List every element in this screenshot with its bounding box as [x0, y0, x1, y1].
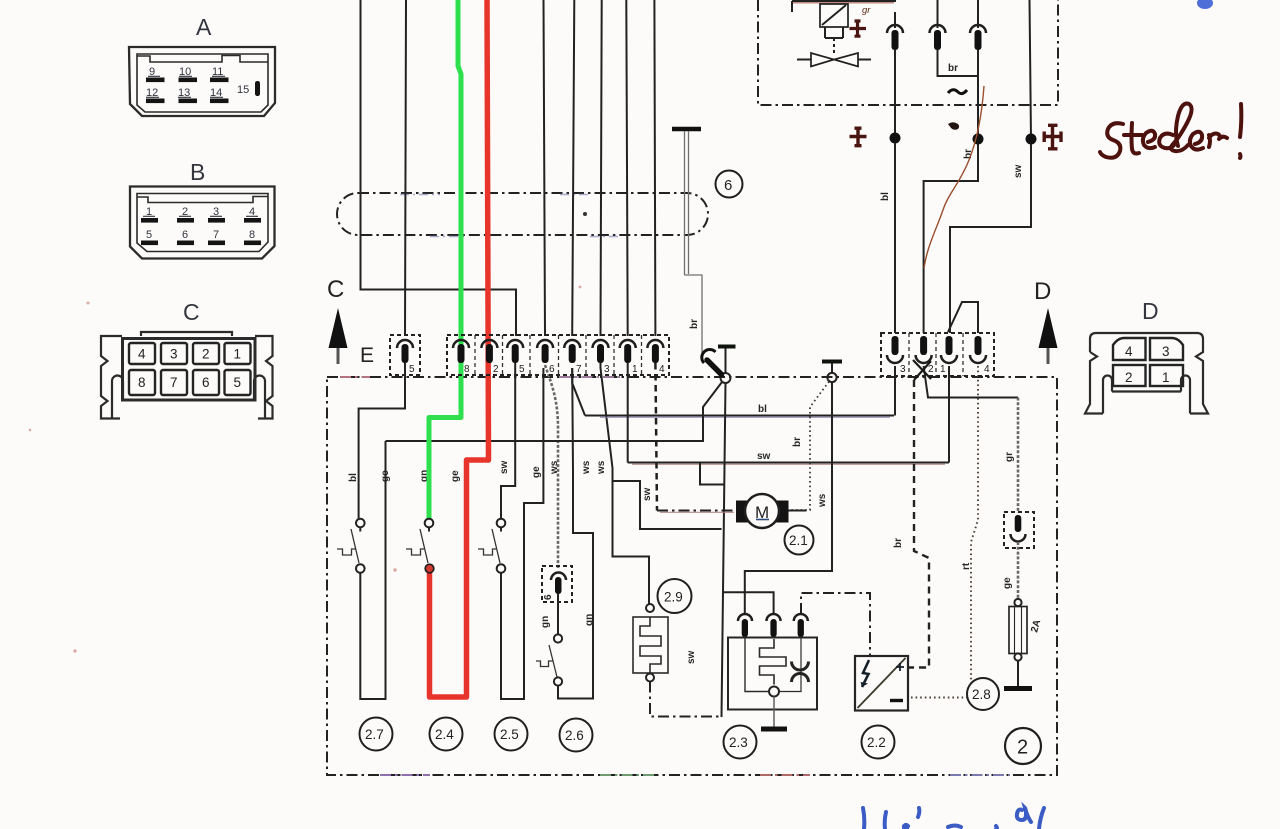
svg-text:C: C [327, 276, 344, 303]
D row pin box [881, 333, 994, 376]
svg-text:6: 6 [202, 375, 210, 390]
wire E6 to lamp 26 (ws grey) [545, 365, 558, 568]
E pins (terminals) [397, 340, 663, 363]
wire to fuse [1017, 542, 1020, 599]
unit circle 2 [1005, 728, 1041, 764]
sw rail tap to stem [700, 463, 724, 485]
ground 23 [773, 697, 775, 728]
X cross mark over pin 2 [913, 360, 931, 380]
wire 29 to sw drop [650, 682, 721, 717]
rt dotted wire D4 to 22 [909, 366, 979, 698]
motor 21 [736, 501, 789, 523]
stadium loom outline (dash-dot) [337, 193, 708, 235]
sw rail [632, 463, 945, 465]
resistor 29 [646, 604, 654, 612]
svg-text:6: 6 [549, 364, 555, 375]
E row pin box 5a [390, 335, 420, 375]
ground 28 [1017, 661, 1019, 686]
svg-text:sw: sw [642, 487, 653, 501]
svg-text:2.8: 2.8 [972, 687, 991, 702]
wire to pin 1 [626, 0, 627, 336]
svg-text:br: br [792, 437, 803, 447]
wire sw top right [1030, 0, 1032, 139]
wire E1 down (sw) [627, 363, 629, 463]
svg-text:3: 3 [900, 364, 906, 375]
connector B pins 1-8 [141, 218, 261, 245]
inverter box 22 [855, 656, 908, 711]
svg-text:E: E [360, 344, 374, 367]
svg-text:2.7: 2.7 [365, 727, 384, 742]
svg-text:6: 6 [182, 229, 188, 241]
svg-text:2.4: 2.4 [435, 727, 454, 742]
pin terminal U3 [970, 25, 986, 33]
node dot bl [890, 133, 901, 144]
component circle 26 [560, 719, 593, 752]
pin terminal U2 [930, 25, 946, 33]
wires into pins 2,3 from top [938, 0, 979, 28]
svg-text:1: 1 [1162, 370, 1170, 385]
antenna lead thin wire [685, 131, 703, 358]
svg-text:2.9: 2.9 [664, 590, 683, 605]
svg-text:ws: ws [817, 493, 828, 508]
wire switch 27 down and return (ge) [360, 441, 385, 699]
svg-text:4: 4 [659, 364, 665, 375]
svg-text:5: 5 [409, 364, 415, 375]
svg-text:2: 2 [928, 364, 934, 375]
wire sw down-step to D-row pin1 [950, 144, 1031, 333]
svg-text:2: 2 [1125, 370, 1133, 385]
svg-text:5: 5 [146, 229, 152, 241]
svg-text:br: br [893, 538, 904, 548]
switch 24 [420, 529, 428, 563]
ws wire T-terminal down to heater 23 [745, 382, 832, 615]
svg-text:4: 4 [984, 364, 990, 375]
svg-text:D: D [1034, 278, 1051, 305]
wire br down-step to D-row pin2 [924, 144, 978, 333]
svg-text:ge: ge [1002, 577, 1013, 589]
handwritten blue marks bottom [863, 808, 1044, 829]
lamp pin box 26 [542, 566, 572, 602]
wire pin1 down to node [894, 50, 896, 139]
br dotted wire T-terminal to motor [789, 382, 829, 511]
wire br U-loop pins 2-3 [938, 50, 979, 76]
connector B body [130, 187, 275, 259]
connector A body [129, 47, 275, 116]
E pin numbers [409, 364, 665, 375]
node 6 circle [716, 171, 743, 198]
wire pin3 down to node [977, 50, 979, 139]
svg-text:D: D [1142, 298, 1159, 324]
wire to pin 4 [654, 0, 655, 336]
svg-text:A: A [196, 14, 212, 40]
node dot sw [1026, 134, 1037, 145]
svg-text:1: 1 [940, 364, 946, 375]
svg-text:sw: sw [499, 460, 510, 474]
pin box 28 feed [1004, 512, 1034, 548]
svg-text:6: 6 [543, 594, 554, 600]
svg-text:2.2: 2.2 [867, 735, 886, 750]
switch 26 [554, 634, 562, 642]
component circle 29 [658, 579, 692, 613]
handwritten Stecker! [1100, 104, 1241, 159]
svg-text:8: 8 [249, 229, 255, 241]
wire 26 return (gn) [558, 368, 593, 699]
plus mark left of dots [850, 127, 867, 147]
svg-text:ws: ws [549, 460, 560, 475]
node dot br [973, 134, 984, 145]
border colour tints [340, 377, 1010, 775]
wire to pin 5a [405, 0, 406, 336]
svg-text:gn: gn [540, 616, 551, 628]
wire E7 to bl rail diagonal [572, 368, 585, 416]
thin brown pencil wire [924, 86, 984, 268]
top-right dash-dot box [758, 0, 1058, 105]
svg-text:1: 1 [234, 347, 242, 362]
svg-text:15: 15 [237, 84, 249, 96]
fuse 28 [1009, 607, 1027, 654]
svg-text:2.3: 2.3 [729, 735, 748, 750]
svg-text:4: 4 [1125, 344, 1133, 359]
wire E3 to resistor 29 [601, 363, 650, 604]
svg-text:gr: gr [862, 5, 871, 16]
svg-text:B: B [190, 159, 205, 185]
grey wire D2 solid to fuse column [924, 366, 1018, 398]
svg-text:br: br [689, 319, 700, 329]
svg-text:bl: bl [880, 192, 891, 201]
component circle 24 [430, 718, 463, 751]
red highlighted wire [430, 0, 489, 697]
bl rail [600, 416, 890, 418]
connector C body [101, 332, 273, 419]
svg-text:2.1: 2.1 [789, 533, 808, 548]
svg-text:gn: gn [584, 614, 595, 626]
svg-text:3: 3 [170, 347, 178, 362]
svg-text:rt: rt [961, 562, 972, 570]
dash-dot feed to 23 pin3 [801, 593, 870, 656]
svg-text:bl: bl [758, 404, 767, 415]
wire switch 25 return (ge) [501, 368, 543, 699]
lever switch 6a T-bar [718, 345, 736, 349]
svg-text:5: 5 [234, 375, 242, 390]
main unit dash-dot border box [327, 377, 1057, 775]
green highlighted wire gn [429, 0, 461, 519]
wire bl vertical left [361, 0, 517, 336]
antenna T-bar [672, 127, 701, 132]
svg-text:gr: gr [1004, 452, 1015, 462]
svg-text:ws: ws [581, 460, 592, 475]
svg-text:8: 8 [138, 375, 146, 390]
D row pins (downward terminals) [887, 336, 986, 363]
svg-text:2.6: 2.6 [565, 728, 584, 743]
plus symbol top box [850, 20, 867, 38]
wire jog from 29 feed down to 29 bottom return [612, 481, 722, 529]
svg-text:ge: ge [531, 466, 542, 478]
jog above D pin 4 [948, 302, 978, 333]
stem branch to heater pin2 [722, 592, 774, 615]
component circle 27 [360, 718, 393, 751]
svg-text:2.5: 2.5 [500, 727, 519, 742]
wire 26 pin to switch [557, 594, 559, 634]
wire bl down to D-row pin3 [894, 144, 896, 334]
wire to pin 3 [601, 0, 602, 336]
faint scan specks [29, 286, 582, 653]
relay K top-right [792, 2, 894, 4]
switch 25 [497, 519, 506, 528]
switch 27 [356, 519, 365, 528]
valve symbol [797, 59, 871, 61]
wire E5b to switch 25 (sw) [501, 363, 515, 519]
svg-text:ge: ge [450, 470, 461, 482]
svg-text:sw: sw [1013, 164, 1024, 178]
ge rail to lever [386, 382, 723, 441]
svg-text:7: 7 [170, 375, 178, 390]
svg-text:ws: ws [596, 460, 607, 475]
plus mark right of dots [1043, 124, 1063, 150]
E row group pin box [447, 335, 669, 375]
pin terminal U1 [887, 25, 903, 33]
wire D1 to sw rail [948, 366, 950, 463]
svg-text:8: 8 [464, 364, 470, 375]
connector A pins 9-15 [146, 78, 260, 104]
svg-text:3: 3 [604, 364, 610, 375]
svg-text:6: 6 [724, 177, 732, 194]
terminal with T-bar on border [822, 360, 842, 364]
wire relay to pin1 [894, 12, 896, 28]
svg-text:ge: ge [380, 470, 391, 482]
br dashed wire D2 to 22 [909, 380, 930, 668]
svg-text:br: br [948, 63, 958, 74]
svg-text:1: 1 [632, 364, 638, 375]
component circle 25 [495, 718, 528, 751]
svg-text:2: 2 [202, 347, 210, 362]
ink blob mark [948, 122, 959, 130]
switch 24 contacts over green/red [425, 519, 434, 528]
wire to pin 7 [572, 0, 574, 336]
svg-text:sw: sw [686, 650, 697, 664]
blue ink dot top right [1197, 0, 1213, 9]
lever switch 6a [721, 373, 731, 383]
svg-text:7: 7 [213, 229, 219, 241]
heater box 23 [738, 614, 752, 621]
connector D cells [1113, 338, 1183, 386]
svg-text:3: 3 [1162, 344, 1170, 359]
svg-text:7: 7 [576, 364, 582, 375]
svg-text:C: C [183, 299, 200, 325]
svg-text:2: 2 [493, 364, 499, 375]
svg-text:4: 4 [138, 347, 146, 362]
svg-text:sw: sw [757, 451, 771, 462]
svg-text:2: 2 [1017, 737, 1028, 759]
D row pin numbers [900, 364, 990, 375]
wire E4 dashed drop to motor [655, 363, 657, 511]
wire E5a to switch 27 (bl) [359, 363, 405, 519]
connector C cell block [123, 339, 256, 401]
wire D3 to bl rail [894, 366, 896, 416]
connector D body [1085, 333, 1208, 414]
lever switch 6a stem down [722, 383, 726, 717]
tilde mark [948, 90, 967, 94]
svg-text:5: 5 [519, 364, 525, 375]
wire to pin 6 [544, 0, 546, 336]
svg-text:bl: bl [348, 473, 359, 482]
